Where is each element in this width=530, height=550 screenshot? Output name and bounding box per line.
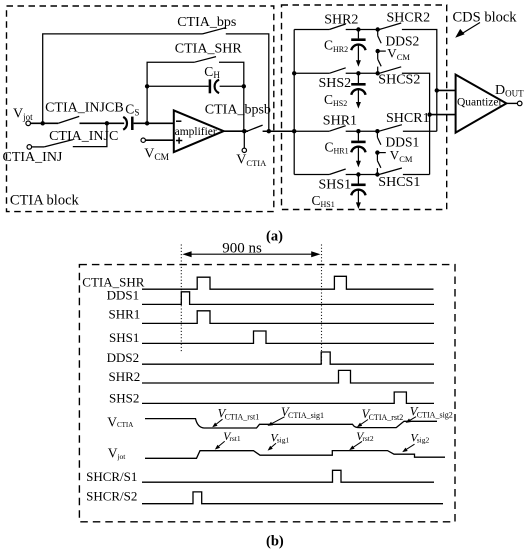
svg-text:CTIA_bps: CTIA_bps <box>177 15 236 30</box>
wire CTIA_bps right segment down to output node <box>226 34 269 131</box>
svg-text:(b): (b) <box>266 533 284 549</box>
switch CTIA_INJCB blade <box>58 116 79 123</box>
comparator U2 quantizer triangle <box>456 75 507 133</box>
svg-text:SHS2: SHS2 <box>109 390 139 405</box>
terminal V_CTIA <box>242 148 246 152</box>
wire row SHS2 left <box>294 72 329 74</box>
timing cursor dotted line right <box>321 245 323 365</box>
switch CTIA_SHR blade <box>194 57 216 63</box>
terminal V_jot <box>26 121 31 126</box>
svg-text:DDS2: DDS2 <box>107 350 140 365</box>
svg-text:SHCS2: SHCS2 <box>378 73 420 88</box>
junction node on input rail (CTIA_bps tap) <box>41 121 45 125</box>
capacitor C_H curved plate <box>215 80 220 94</box>
svg-text:SHR1: SHR1 <box>109 307 141 322</box>
signal CTIA_SHR waveform <box>142 276 434 289</box>
wire CTIA_INJ terminal stub <box>32 146 45 148</box>
svg-text:CHS2: CHS2 <box>324 92 347 108</box>
annotation V_rst1 <box>215 431 241 449</box>
wire C_H right lead <box>220 85 244 87</box>
annotation V_sig1 <box>268 433 290 451</box>
wire CTIA_SHR right segment down to output node <box>219 62 244 131</box>
svg-text:CHR1: CHR1 <box>325 139 349 155</box>
svg-text:CTIA_rst1: CTIA_rst1 <box>225 413 260 422</box>
svg-text:CH: CH <box>204 64 220 80</box>
switch DDS2 blade <box>378 36 382 43</box>
switch SHCR1 blade <box>379 125 402 132</box>
junction node summing point (feedback tap) <box>145 121 149 125</box>
wire row SHR1 mid <box>346 130 378 132</box>
timing cursor dotted line left <box>180 245 182 353</box>
signal SHS2 waveform <box>142 392 434 403</box>
annotation V_rst2 <box>349 431 374 450</box>
signal SHS1 waveform <box>142 331 434 343</box>
svg-text:SHCR/S1: SHCR/S1 <box>86 469 137 484</box>
wire Cs to amplifier inverting input <box>134 122 174 124</box>
svg-text:Quantizer: Quantizer <box>457 97 503 109</box>
switch CTIA_INJC blade <box>44 140 73 147</box>
wire DDS1 column to row SHS1 <box>376 168 378 174</box>
annotation V_CTIA_rst2 <box>357 407 403 427</box>
wire quantizer bottom input <box>430 114 456 116</box>
op-amp U1 amplifier triangle <box>174 110 224 152</box>
junction node C_HS2 top <box>356 71 360 75</box>
svg-text:DOUT: DOUT <box>495 83 524 98</box>
svg-text:SHS1: SHS1 <box>109 330 139 345</box>
svg-text:amplifier: amplifier <box>175 126 217 138</box>
terminal D_OUT <box>517 101 522 106</box>
wire row SHR1 right <box>403 130 437 132</box>
wire row SHR2 mid <box>346 29 378 31</box>
switch SHS2 blade <box>329 68 345 74</box>
svg-text:VCTIA: VCTIA <box>236 153 267 169</box>
svg-text:VCTIA: VCTIA <box>107 414 133 429</box>
svg-text:SHS1: SHS1 <box>319 177 352 192</box>
wire row SHR2 right to outer vertical <box>402 30 437 132</box>
junction node quantizer bottom input tap <box>427 112 431 116</box>
wire row SHS2 mid <box>346 72 378 74</box>
CDS block dashed border <box>282 5 447 210</box>
svg-text:CDS block: CDS block <box>453 9 518 25</box>
timing diagram dashed border <box>79 265 455 522</box>
wire op-amp output <box>224 130 248 132</box>
svg-text:Vjot: Vjot <box>13 107 33 123</box>
svg-text:CTIA_INJC: CTIA_INJC <box>49 129 118 144</box>
switch SHR2 blade <box>329 24 345 30</box>
wire C_H left lead <box>147 85 209 87</box>
dimension arrow 900 ns <box>182 251 320 257</box>
switch CTIA_bpsb blade <box>247 125 262 131</box>
svg-text:sig1: sig1 <box>277 436 290 445</box>
annotation V_sig2 <box>402 432 429 452</box>
svg-text:SHR1: SHR1 <box>323 114 357 129</box>
junction node DDS1 top <box>375 129 379 133</box>
junction node C_H left <box>145 84 149 88</box>
wire switch CTIA_INJCB to capacitor Cs <box>80 122 125 124</box>
svg-text:CTIA_bpsb: CTIA_bpsb <box>205 102 271 117</box>
wire CTIA output to CDS bus <box>263 130 295 132</box>
junction node bus row SHS2 <box>292 71 296 75</box>
svg-text:VCM: VCM <box>390 147 413 163</box>
capacitor C_HR1 <box>351 131 365 167</box>
junction node DDS2 bottom <box>376 71 380 75</box>
svg-text:900 ns: 900 ns <box>222 241 262 257</box>
capacitor C_HS1 <box>351 175 365 210</box>
junction node C_HR2 top <box>356 27 360 31</box>
signal SHR2 waveform <box>142 370 434 383</box>
junction node V_CM1 <box>375 150 379 154</box>
svg-text:CTIA block: CTIA block <box>10 193 80 209</box>
signal SHCR/S2 waveform <box>142 492 443 504</box>
wire row SHS1 left <box>294 174 329 176</box>
junction node C_HS1 top <box>356 172 360 176</box>
signal DDS2 waveform <box>142 352 434 364</box>
svg-text:DDS2: DDS2 <box>386 33 420 48</box>
wire DDS2 column to row SHS2 <box>377 67 379 74</box>
wire row SHS2 right to inner vertical <box>402 73 430 174</box>
svg-text:(a): (a) <box>266 228 283 244</box>
wire CDS left bus vertical <box>293 30 295 175</box>
svg-text:DDS1: DDS1 <box>386 135 420 150</box>
arrow from CDS block label <box>455 23 480 38</box>
CTIA block dashed border <box>7 6 274 212</box>
wire quantizer output <box>506 102 517 104</box>
svg-text:Vjot: Vjot <box>108 446 127 461</box>
svg-text:DDS1: DDS1 <box>107 288 140 303</box>
svg-text:CTIA_INJCB: CTIA_INJCB <box>45 101 124 116</box>
svg-text:CTIA_rst2: CTIA_rst2 <box>369 413 404 422</box>
capacitor C_H flat plate <box>209 79 212 93</box>
terminal CTIA_INJ <box>27 145 32 150</box>
svg-text:sig2: sig2 <box>417 435 430 444</box>
wire row SHR1 left <box>294 130 329 132</box>
signal V_CTIA waveform <box>145 419 437 428</box>
terminal V_CM (CTIA) <box>141 138 145 142</box>
svg-text:SHCR/S2: SHCR/S2 <box>86 489 137 504</box>
svg-text:CS: CS <box>125 101 139 117</box>
annotation V_CTIA_rst1 <box>212 406 259 427</box>
switch SHCS2 blade <box>379 67 401 74</box>
junction node V_CM2 <box>376 49 380 53</box>
capacitor C_HR2 <box>351 30 365 67</box>
switch SHR1 blade <box>329 126 345 132</box>
junction node CTIA_bps at output <box>267 129 271 133</box>
svg-text:SHR2: SHR2 <box>109 369 141 384</box>
svg-text:rst2: rst2 <box>362 434 374 443</box>
junction node DDS1 bottom <box>375 172 379 176</box>
signal V_jot waveform <box>145 451 445 459</box>
switch SHS1 blade <box>329 169 345 175</box>
wire CTIA_INJC to rail branch <box>73 123 107 146</box>
signal DDS1 waveform <box>142 292 434 305</box>
junction node C_H right <box>242 84 246 88</box>
switch CTIA_bps blade <box>203 28 226 34</box>
wire row SHS1 mid <box>346 174 378 176</box>
svg-text:CTIA_sig1: CTIA_sig1 <box>288 411 324 420</box>
wire CTIA_SHR loop left vertical <box>147 62 194 123</box>
wire quantizer top input <box>437 89 456 91</box>
svg-text:SHR2: SHR2 <box>324 12 358 27</box>
svg-text:CHR2: CHR2 <box>324 38 348 54</box>
signal SHCR/S1 waveform <box>142 470 434 482</box>
annotation V_CTIA_sig2 <box>406 404 453 423</box>
switch SHCR2 blade <box>379 23 401 30</box>
svg-text:CTIA_SHR: CTIA_SHR <box>175 41 243 56</box>
svg-text:VCM: VCM <box>144 146 169 163</box>
junction node op-amp output V_CTIA <box>242 129 246 133</box>
svg-text:SHCR2: SHCR2 <box>387 11 431 26</box>
svg-text:rst1: rst1 <box>229 434 241 443</box>
svg-text:CTIA_INJ: CTIA_INJ <box>3 150 63 165</box>
wire V_CM1 tick <box>377 152 385 154</box>
svg-text:SHCS1: SHCS1 <box>378 175 420 190</box>
junction node DDS2 top <box>376 27 380 31</box>
wire V_jot to switch CTIA_INJCB <box>31 122 59 124</box>
switch SHCS1 blade <box>379 168 402 175</box>
switch DDS1 blade <box>377 137 381 144</box>
junction node C_HR1 top <box>356 129 360 133</box>
wire row SHR2 left <box>294 29 329 31</box>
svg-text:SHS2: SHS2 <box>319 76 352 91</box>
wire V_CM2 tick <box>378 50 386 52</box>
annotation V_CTIA_sig1 <box>268 405 325 426</box>
svg-text:SHCR1: SHCR1 <box>386 111 430 126</box>
svg-text:CHS1: CHS1 <box>312 193 335 209</box>
wire CTIA_bps feedback up from input node <box>43 34 203 123</box>
op-amp non-inverting input plus sign <box>176 137 182 143</box>
switch DDS2 column: stub from row SHR2 <box>377 30 379 36</box>
op-amp inverting input minus sign <box>176 120 181 122</box>
svg-text:CTIA_sig2: CTIA_sig2 <box>417 411 453 420</box>
junction node quantizer top input tap <box>435 88 439 92</box>
switch lower blade DDS2 column <box>378 59 382 66</box>
switch lower blade DDS2 column stub <box>377 51 379 59</box>
signal SHR1 waveform <box>142 311 434 324</box>
junction node CTIA_INJC branch on rail <box>105 121 109 125</box>
wire V_CM to op-amp plus input <box>145 139 173 141</box>
wire V_CTIA stub <box>243 131 245 148</box>
switch DDS1 column: stub from row SHR1 <box>376 131 378 137</box>
junction node bus row SHR1 <box>292 129 296 133</box>
switch lower blade DDS1 column <box>377 161 381 168</box>
switch lower blade DDS1 column stub <box>376 153 378 161</box>
capacitor Cs flat plate <box>131 117 134 130</box>
wire row SHS1 right <box>403 174 430 176</box>
capacitor C_HS2 <box>351 73 365 108</box>
capacitor Cs curved plate <box>123 117 127 130</box>
